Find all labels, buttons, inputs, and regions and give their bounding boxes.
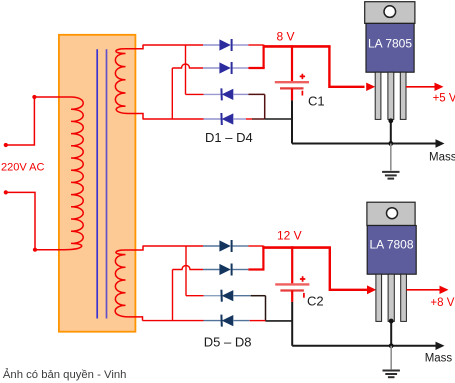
wire vertical D6-D8 net <box>172 270 174 321</box>
node primary top <box>32 95 36 99</box>
wire U2 pin2 to mass <box>390 320 392 346</box>
wire 8V rail <box>263 45 331 48</box>
wire 12V node down to C2 <box>291 246 293 283</box>
U2 pin 2 <box>388 274 394 321</box>
node U1 pin2 <box>388 118 393 123</box>
diode D7 <box>204 290 251 302</box>
svg-text:LA 7808: LA 7808 <box>369 238 413 252</box>
node primary bottom <box>33 248 37 252</box>
wire vertical joining D3,D4 anodes <box>264 94 266 119</box>
wire 12V rail <box>262 246 331 249</box>
wire C2 to ground black <box>291 302 293 346</box>
diode D3 <box>204 88 249 100</box>
svg-text:220V AC: 220V AC <box>1 162 44 174</box>
C1 plus sign <box>300 74 305 79</box>
wire D6 cathode stub thick <box>248 268 264 270</box>
C1 minus tick <box>301 91 303 96</box>
svg-text:+8 V: +8 V <box>430 297 454 309</box>
capacitor C2 top plate <box>275 283 309 285</box>
wire U1 output <box>406 86 436 88</box>
U2 pin 3 <box>401 274 407 321</box>
wire 12V rail to regulator input <box>330 248 368 290</box>
U2 mounting hole <box>387 208 398 219</box>
svg-text:LA 7805: LA 7805 <box>368 37 412 51</box>
wire to D6 with hop <box>173 266 204 270</box>
U2 pin 1 <box>376 274 382 321</box>
diode D4 <box>204 113 247 125</box>
wire S1 top to D1 anode <box>143 44 203 46</box>
capacitor C1 bottom plate <box>280 87 304 89</box>
Mass rail 1 <box>292 143 437 145</box>
wire vertical joining D1,D2 cathodes <box>263 45 265 68</box>
node mass junction 2 <box>389 343 394 348</box>
wire D2 cathode stub thick <box>248 67 264 69</box>
node U2 pin2 <box>389 319 394 324</box>
regulator U2 LA7808 tab <box>367 202 415 225</box>
svg-text:8 V: 8 V <box>277 30 295 44</box>
wire vertical D1-D3 net <box>185 45 187 94</box>
ground lead 1 <box>390 144 392 171</box>
regulator U1 LA7805 tab <box>365 2 415 24</box>
diode D8 <box>204 315 250 327</box>
wire C1 to ground black <box>291 100 293 143</box>
svg-text:D5 – D8: D5 – D8 <box>204 334 252 349</box>
wire S2 bottom to D8 cathode <box>143 320 204 322</box>
wire vertical joining D5,D6 cathodes <box>262 246 264 270</box>
wire to D2 with hop <box>172 64 203 68</box>
transformer core line right <box>106 49 108 318</box>
wire D4 anode stub <box>246 118 252 120</box>
svg-text:+5 V: +5 V <box>433 92 455 104</box>
wire AC terminal 2 to primary bottom <box>6 192 35 249</box>
wire vertical D5-D7 net <box>185 246 187 296</box>
ground symbol 1 <box>382 172 399 179</box>
wire S2 top to D5 anode <box>143 245 204 247</box>
svg-text:12 V: 12 V <box>277 228 302 242</box>
svg-text:C2: C2 <box>307 294 324 309</box>
C2 plus sign <box>300 276 305 281</box>
diode D1 <box>203 39 248 51</box>
arrow into U2 input <box>367 285 376 294</box>
diode D2 <box>203 62 248 74</box>
wire C2 bottom lead red <box>291 291 293 302</box>
U1 pin 3 <box>400 72 406 119</box>
wire D5 cathode stub <box>248 245 263 247</box>
arrow +5V <box>435 83 444 91</box>
wire D1 cathode stub <box>248 44 263 46</box>
U1 mounting hole <box>384 6 396 18</box>
svg-text:Mass: Mass <box>425 353 453 365</box>
wire bridge1 negative to ground bus <box>265 118 292 120</box>
ground symbol 2 <box>383 371 400 378</box>
svg-text:C1: C1 <box>308 94 325 109</box>
wire 8V node down to C1 <box>291 45 293 81</box>
node terminal 2 <box>4 190 8 194</box>
wire U2 output <box>406 289 440 291</box>
ground lead 2 <box>390 346 392 370</box>
transformer core line left <box>96 49 98 318</box>
U1 pin 2 <box>388 72 394 119</box>
wire AC terminal 1 to primary top <box>6 97 35 145</box>
Mass rail 2 <box>292 345 436 347</box>
wire C1 bottom lead red <box>291 88 293 100</box>
capacitor C1 top plate <box>275 81 309 83</box>
wire D3 anode stub maroon <box>248 93 264 95</box>
transformer body <box>59 35 135 332</box>
wire to D7 cathode <box>186 295 204 297</box>
secondary winding S2 <box>115 246 143 321</box>
node terminal 1 <box>4 143 8 147</box>
arrow Mass 2 <box>436 342 445 350</box>
svg-text:Ảnh có bản quyền - Vinh: Ảnh có bản quyền - Vinh <box>3 368 127 381</box>
wire vertical D2-D4 net <box>171 68 173 119</box>
wire to D3 cathode <box>186 93 204 95</box>
wire bridge2 negative to ground bus <box>266 320 293 322</box>
wire D7 anode stub black <box>251 295 266 297</box>
wire D8 anode stub red <box>250 320 266 322</box>
diode D6 <box>203 264 248 276</box>
arrow +8V <box>440 286 449 294</box>
diode D5 <box>203 240 248 252</box>
wire 8V rail to regulator input <box>329 46 364 86</box>
svg-text:Mass: Mass <box>429 151 455 163</box>
wire S1 bottom to D4 cathode <box>143 118 204 120</box>
arrow Mass 1 <box>436 139 445 147</box>
primary winding L1 <box>34 97 83 250</box>
C2 minus tick <box>303 293 305 298</box>
wire vertical joining D7,D8 anodes <box>265 296 267 321</box>
wire U1 pin2 to mass <box>390 120 392 144</box>
arrow into U1 input <box>366 83 375 91</box>
U1 body <box>366 23 414 72</box>
U1 pin 1 <box>375 72 381 119</box>
capacitor C2 bottom plate <box>280 289 304 291</box>
svg-text:D1 – D4: D1 – D4 <box>205 130 253 145</box>
U2 body <box>367 226 416 275</box>
secondary winding S1 <box>115 45 143 119</box>
node mass junction 1 <box>388 141 393 146</box>
